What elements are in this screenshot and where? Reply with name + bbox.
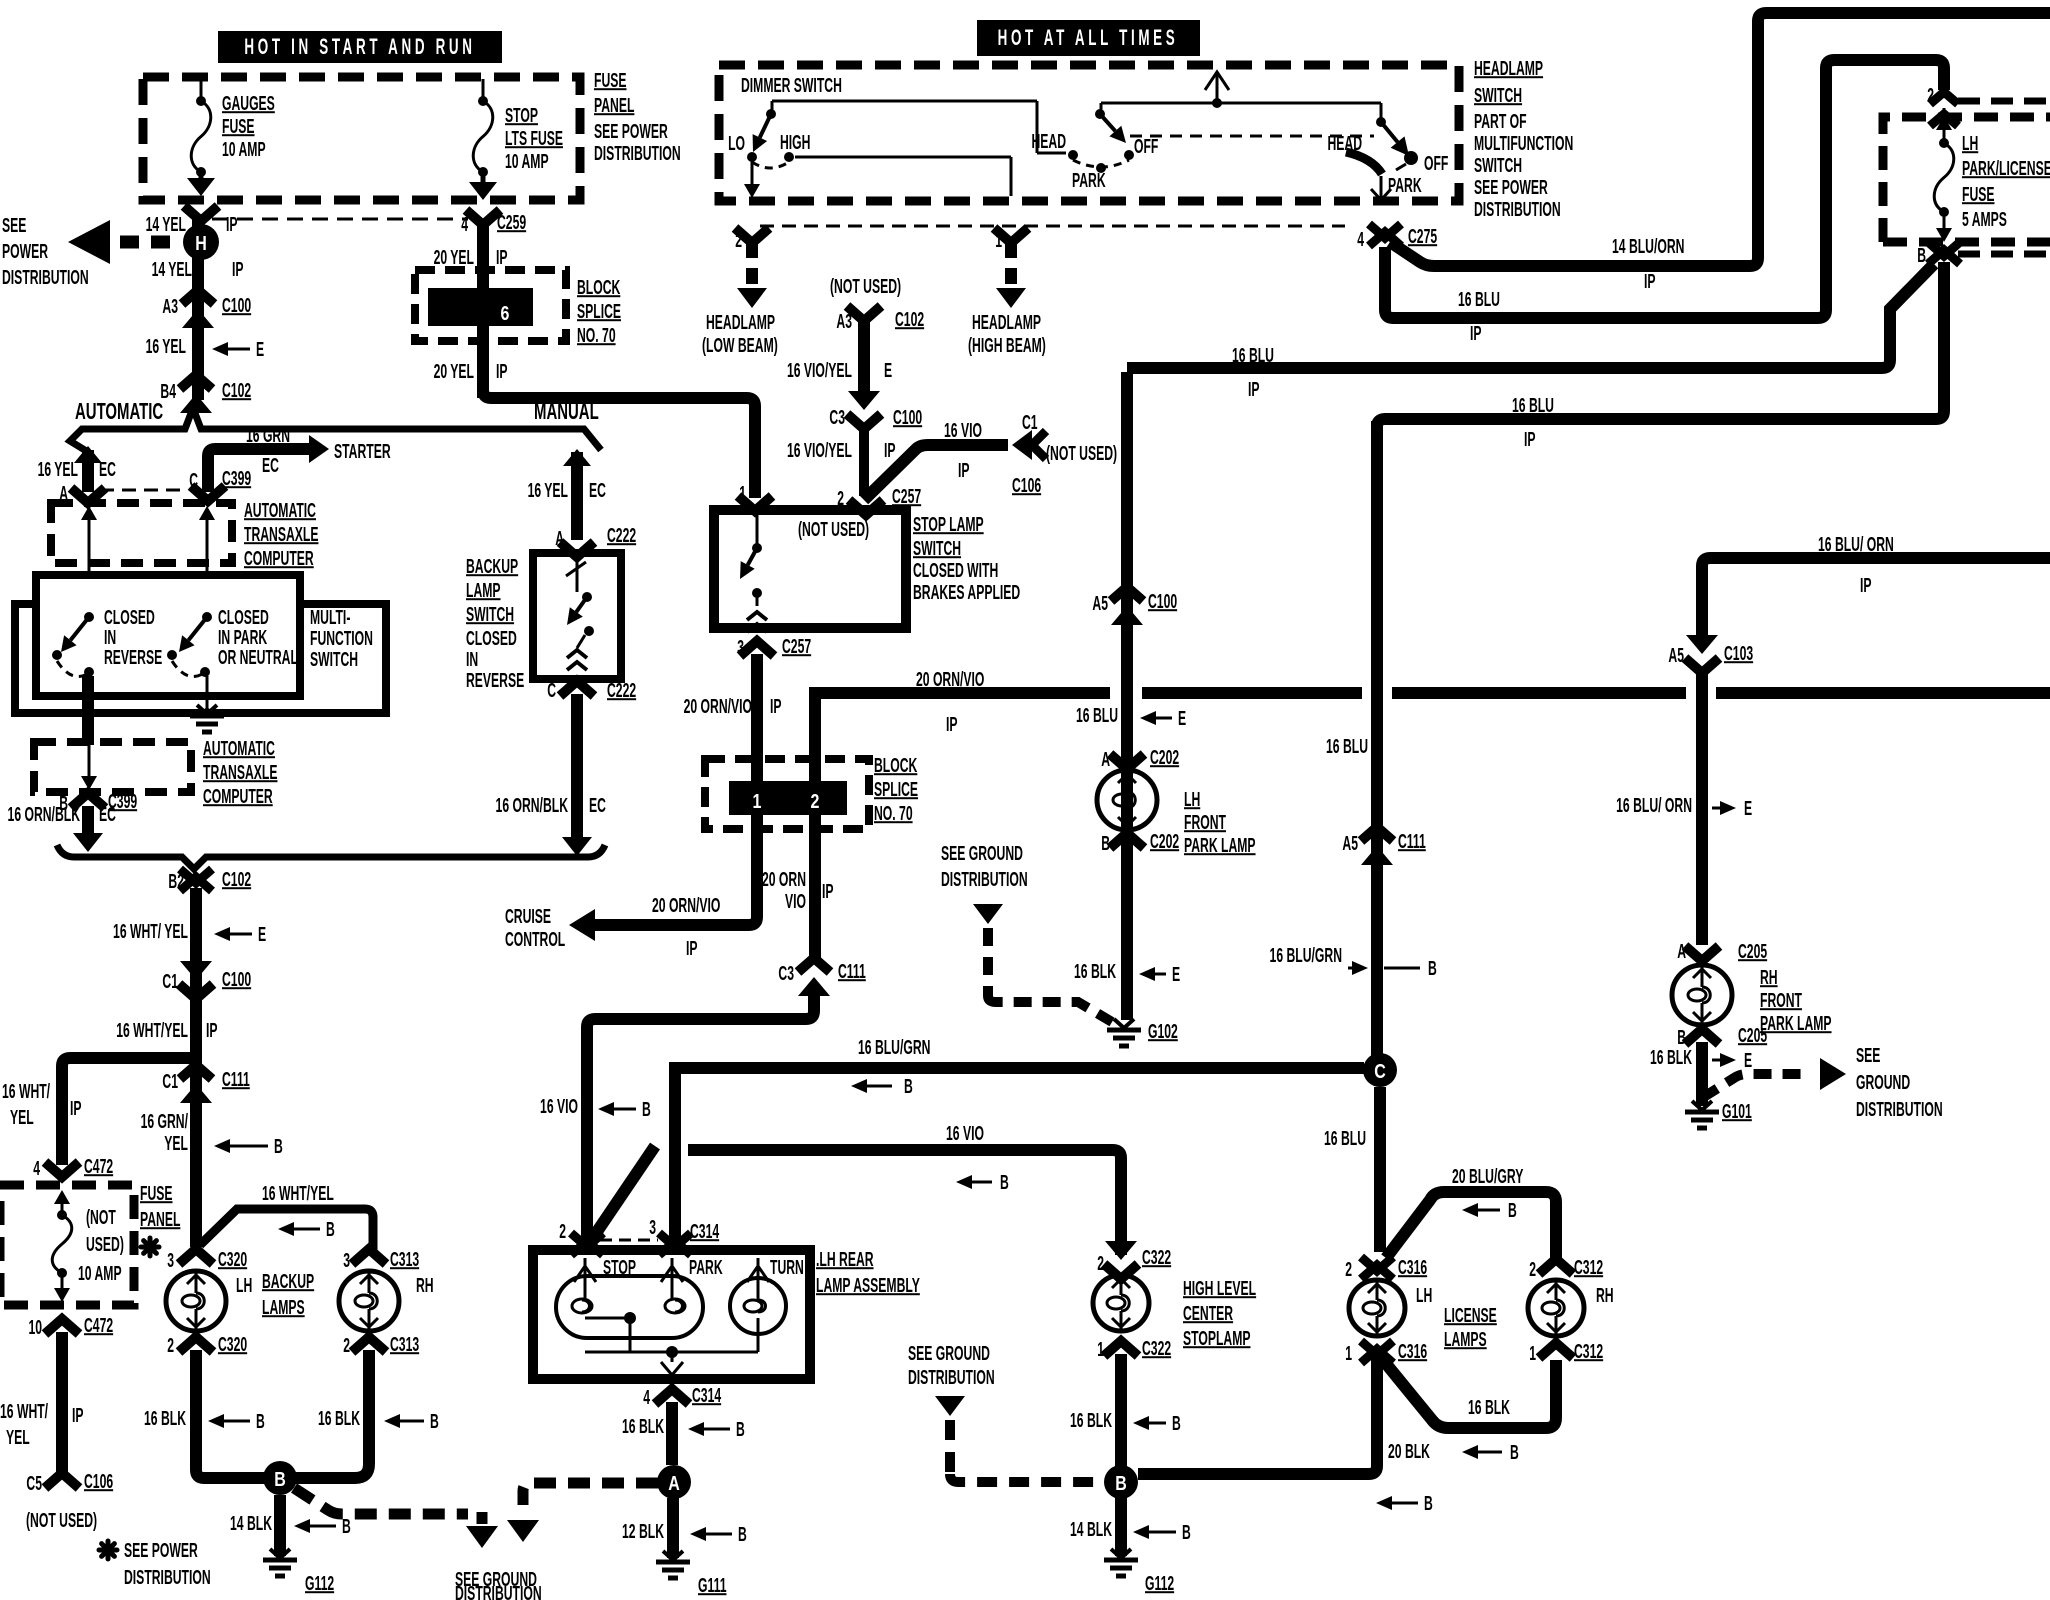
svg-text:C3: C3 bbox=[829, 406, 845, 429]
svg-text:B: B bbox=[904, 1075, 913, 1098]
svg-text:OFF: OFF bbox=[1424, 152, 1448, 175]
svg-text:E: E bbox=[884, 359, 892, 382]
svg-text:C205: C205 bbox=[1738, 940, 1767, 963]
svg-text:C106: C106 bbox=[84, 1470, 113, 1493]
svg-text:EC: EC bbox=[262, 454, 279, 477]
svg-text:20 BLK: 20 BLK bbox=[1388, 1440, 1430, 1463]
svg-text:EC: EC bbox=[99, 458, 116, 481]
svg-text:LICENSE: LICENSE bbox=[1444, 1304, 1497, 1327]
svg-text:C472: C472 bbox=[84, 1155, 113, 1178]
svg-text:B: B bbox=[1172, 1412, 1181, 1435]
svg-text:16 ORN/BLK: 16 ORN/BLK bbox=[496, 794, 568, 817]
svg-text:16 BLK: 16 BLK bbox=[622, 1415, 664, 1438]
svg-text:C320: C320 bbox=[218, 1248, 247, 1271]
svg-text:PANEL: PANEL bbox=[594, 94, 634, 117]
svg-text:C1: C1 bbox=[1022, 411, 1038, 434]
svg-text:C313: C313 bbox=[390, 1248, 419, 1271]
svg-text:2: 2 bbox=[1529, 1258, 1536, 1281]
svg-text:C259: C259 bbox=[497, 211, 526, 234]
svg-text:CLOSED: CLOSED bbox=[466, 627, 517, 650]
svg-text:PARK: PARK bbox=[1072, 169, 1106, 192]
svg-text:16 YEL: 16 YEL bbox=[528, 479, 568, 502]
svg-text:SWITCH: SWITCH bbox=[466, 603, 514, 626]
svg-text:C257: C257 bbox=[892, 485, 921, 508]
svg-text:EC: EC bbox=[99, 803, 116, 826]
svg-text:B: B bbox=[1101, 832, 1110, 855]
svg-text:B2: B2 bbox=[168, 870, 184, 893]
svg-text:IP: IP bbox=[1860, 574, 1872, 597]
svg-text:C222: C222 bbox=[607, 679, 636, 702]
svg-text:DISTRIBUTION: DISTRIBUTION bbox=[455, 1582, 542, 1600]
svg-text:B: B bbox=[1508, 1199, 1517, 1222]
svg-text:IP: IP bbox=[1644, 270, 1656, 293]
svg-text:CLOSED WITH: CLOSED WITH bbox=[913, 559, 998, 582]
svg-text:A: A bbox=[1101, 748, 1110, 771]
svg-text:DISTRIBUTION: DISTRIBUTION bbox=[1474, 198, 1561, 221]
svg-text:IP: IP bbox=[946, 713, 958, 736]
svg-text:B: B bbox=[1424, 1492, 1433, 1515]
svg-text:IP: IP bbox=[884, 439, 896, 462]
svg-text:RH: RH bbox=[1760, 966, 1778, 989]
svg-text:HIGH: HIGH bbox=[780, 131, 810, 154]
svg-text:C100: C100 bbox=[893, 406, 922, 429]
svg-text:B: B bbox=[1182, 1521, 1191, 1544]
svg-text:4: 4 bbox=[33, 1157, 40, 1180]
svg-text:LH: LH bbox=[236, 1274, 252, 1297]
svg-text:A: A bbox=[668, 1472, 680, 1494]
svg-text:1: 1 bbox=[995, 229, 1002, 252]
svg-text:3: 3 bbox=[649, 1216, 656, 1239]
svg-text:C202: C202 bbox=[1150, 830, 1179, 853]
svg-text:B: B bbox=[274, 1135, 283, 1158]
svg-text:16 BLU/ ORN: 16 BLU/ ORN bbox=[1616, 794, 1692, 817]
svg-text:IP: IP bbox=[1248, 378, 1260, 401]
svg-text:C: C bbox=[547, 679, 556, 702]
svg-text:16 BLU: 16 BLU bbox=[1458, 288, 1500, 311]
svg-text:FRONT: FRONT bbox=[1760, 989, 1802, 1012]
svg-text:16 BLK: 16 BLK bbox=[144, 1407, 186, 1430]
svg-text:16 BLU/GRN: 16 BLU/GRN bbox=[1270, 944, 1342, 967]
svg-text:IP: IP bbox=[770, 695, 782, 718]
svg-text:TRANSAXLE: TRANSAXLE bbox=[203, 761, 277, 784]
svg-text:16 YEL: 16 YEL bbox=[146, 335, 186, 358]
svg-text:5 AMPS: 5 AMPS bbox=[1962, 208, 2007, 231]
svg-text:16 VIO/YEL: 16 VIO/YEL bbox=[787, 359, 852, 382]
svg-text:C100: C100 bbox=[222, 294, 251, 317]
svg-text:YEL: YEL bbox=[6, 1426, 30, 1449]
svg-text:IP: IP bbox=[232, 258, 244, 281]
svg-text:TRANSAXLE: TRANSAXLE bbox=[244, 523, 318, 546]
svg-text:STARTER: STARTER bbox=[334, 440, 391, 463]
svg-text:C106: C106 bbox=[1012, 474, 1041, 497]
svg-text:IP: IP bbox=[206, 1019, 218, 1042]
svg-text:LH: LH bbox=[1962, 132, 1978, 155]
svg-text:1: 1 bbox=[1345, 1342, 1352, 1365]
svg-text:B: B bbox=[256, 1410, 265, 1433]
svg-text:1: 1 bbox=[739, 482, 746, 505]
svg-text:2: 2 bbox=[735, 229, 742, 252]
svg-text:SEE POWER: SEE POWER bbox=[1474, 176, 1548, 199]
svg-text:USED): USED) bbox=[86, 1233, 124, 1256]
svg-text:PANEL: PANEL bbox=[140, 1208, 180, 1231]
svg-text:IP: IP bbox=[72, 1404, 84, 1427]
svg-text:STOP LAMP: STOP LAMP bbox=[913, 513, 984, 536]
svg-text:16 GRN: 16 GRN bbox=[246, 424, 290, 447]
svg-text:A: A bbox=[555, 527, 564, 550]
svg-text:B: B bbox=[342, 1515, 351, 1538]
svg-text:BLOCK: BLOCK bbox=[577, 276, 620, 299]
svg-text:HOT IN START AND RUN: HOT IN START AND RUN bbox=[244, 35, 475, 59]
svg-text:C100: C100 bbox=[222, 968, 251, 991]
svg-text:A3: A3 bbox=[162, 295, 178, 318]
svg-text:C102: C102 bbox=[222, 379, 251, 402]
svg-text:C314: C314 bbox=[690, 1220, 720, 1243]
svg-text:3: 3 bbox=[343, 1249, 350, 1272]
svg-text:LAMP: LAMP bbox=[466, 579, 501, 602]
svg-text:A5: A5 bbox=[1092, 592, 1108, 615]
svg-text:2: 2 bbox=[1097, 1252, 1104, 1275]
svg-text:NO. 70: NO. 70 bbox=[874, 802, 913, 825]
svg-text:BACKUP: BACKUP bbox=[262, 1270, 314, 1293]
svg-text:C1: C1 bbox=[162, 970, 178, 993]
svg-text:16 VIO/YEL: 16 VIO/YEL bbox=[787, 439, 852, 462]
svg-text:16 BLU: 16 BLU bbox=[1076, 704, 1118, 727]
svg-text:16 BLK: 16 BLK bbox=[1070, 1409, 1112, 1432]
svg-text:IP: IP bbox=[226, 213, 238, 236]
svg-text:C111: C111 bbox=[1398, 830, 1426, 853]
svg-text:16 BLU/GRN: 16 BLU/GRN bbox=[858, 1036, 930, 1059]
svg-text:GAUGES: GAUGES bbox=[222, 92, 275, 115]
svg-text:G112: G112 bbox=[1145, 1572, 1174, 1595]
svg-text:20 ORN/VIO: 20 ORN/VIO bbox=[684, 695, 752, 718]
svg-text:B: B bbox=[642, 1098, 651, 1121]
svg-text:LTS FUSE: LTS FUSE bbox=[505, 127, 563, 150]
svg-text:1: 1 bbox=[1097, 1338, 1104, 1361]
svg-text:BACKUP: BACKUP bbox=[466, 555, 518, 578]
svg-text:LAMP ASSEMBLY: LAMP ASSEMBLY bbox=[816, 1274, 920, 1297]
svg-text:MANUAL: MANUAL bbox=[534, 399, 599, 425]
svg-text:14 YEL: 14 YEL bbox=[146, 213, 186, 236]
svg-text:SPLICE: SPLICE bbox=[874, 778, 918, 801]
svg-text:SEE POWER: SEE POWER bbox=[594, 120, 668, 143]
svg-text:16 GRN/: 16 GRN/ bbox=[141, 1110, 189, 1133]
svg-text:HEAD: HEAD bbox=[1327, 132, 1362, 155]
svg-text:PARK/LICENSE: PARK/LICENSE bbox=[1962, 157, 2050, 180]
svg-text:A5: A5 bbox=[1668, 644, 1684, 667]
svg-text:(NOT USED): (NOT USED) bbox=[26, 1509, 97, 1532]
svg-text:14 BLK: 14 BLK bbox=[230, 1512, 272, 1535]
svg-text:STOP: STOP bbox=[505, 104, 538, 127]
svg-text:C100: C100 bbox=[1148, 590, 1177, 613]
svg-text:G112: G112 bbox=[305, 1572, 334, 1595]
svg-text:LAMPS: LAMPS bbox=[1444, 1328, 1487, 1351]
svg-text:C5: C5 bbox=[26, 1472, 42, 1495]
svg-text:20 ORN: 20 ORN bbox=[762, 868, 806, 891]
svg-text:HEADLAMP: HEADLAMP bbox=[706, 311, 775, 334]
svg-text:LAMPS: LAMPS bbox=[262, 1296, 305, 1319]
svg-text:2: 2 bbox=[167, 1334, 174, 1357]
svg-text:3: 3 bbox=[167, 1249, 174, 1272]
svg-text:POWER: POWER bbox=[2, 240, 48, 263]
svg-text:B: B bbox=[738, 1523, 747, 1546]
svg-text:C312: C312 bbox=[1574, 1256, 1603, 1279]
svg-text:SEE: SEE bbox=[2, 214, 26, 237]
svg-text:E: E bbox=[1178, 707, 1186, 730]
svg-text:1: 1 bbox=[753, 790, 762, 812]
svg-text:HEADLAMP: HEADLAMP bbox=[1474, 57, 1543, 80]
svg-text:.LH REAR: .LH REAR bbox=[816, 1248, 874, 1271]
svg-text:PARK: PARK bbox=[1388, 174, 1422, 197]
svg-text:(NOT USED): (NOT USED) bbox=[1046, 442, 1117, 465]
svg-text:SWITCH: SWITCH bbox=[1474, 84, 1522, 107]
svg-text:16 VIO: 16 VIO bbox=[944, 419, 982, 442]
svg-text:16 YEL: 16 YEL bbox=[38, 458, 78, 481]
svg-text:16 BLU: 16 BLU bbox=[1326, 735, 1368, 758]
svg-text:C320: C320 bbox=[218, 1333, 247, 1356]
svg-text:16 BLU/ ORN: 16 BLU/ ORN bbox=[1818, 533, 1894, 556]
svg-text:FRONT: FRONT bbox=[1184, 811, 1226, 834]
svg-text:C275: C275 bbox=[1408, 225, 1437, 248]
svg-text:3: 3 bbox=[737, 636, 744, 659]
svg-text:C322: C322 bbox=[1142, 1246, 1171, 1269]
svg-text:NO. 70: NO. 70 bbox=[577, 324, 616, 347]
svg-text:16 WHT/ YEL: 16 WHT/ YEL bbox=[113, 920, 188, 943]
svg-text:PART OF: PART OF bbox=[1474, 110, 1527, 133]
svg-text:CONTROL: CONTROL bbox=[505, 928, 565, 951]
svg-text:CRUISE: CRUISE bbox=[505, 905, 551, 928]
svg-text:G102: G102 bbox=[1148, 1020, 1178, 1043]
svg-text:COMPUTER: COMPUTER bbox=[244, 547, 314, 570]
svg-text:SEE POWER: SEE POWER bbox=[124, 1539, 198, 1562]
svg-text:(HIGH BEAM): (HIGH BEAM) bbox=[968, 334, 1046, 357]
svg-text:A: A bbox=[1677, 940, 1686, 963]
svg-text:C111: C111 bbox=[838, 960, 866, 983]
svg-text:12 BLK: 12 BLK bbox=[622, 1520, 664, 1543]
svg-text:16 WHT/YEL: 16 WHT/YEL bbox=[116, 1019, 188, 1042]
svg-text:16 VIO: 16 VIO bbox=[540, 1095, 578, 1118]
svg-text:16 WHT/: 16 WHT/ bbox=[0, 1400, 48, 1423]
svg-text:16 BLK: 16 BLK bbox=[1468, 1396, 1510, 1419]
svg-text:MULTI-: MULTI- bbox=[310, 606, 350, 629]
svg-text:FUSE: FUSE bbox=[1962, 183, 1995, 206]
svg-text:DIMMER SWITCH: DIMMER SWITCH bbox=[741, 74, 842, 97]
svg-text:DISTRIBUTION: DISTRIBUTION bbox=[908, 1366, 995, 1389]
svg-text:SEE: SEE bbox=[1856, 1044, 1880, 1067]
svg-text:16 BLU: 16 BLU bbox=[1232, 344, 1274, 367]
svg-text:20 BLU/GRY: 20 BLU/GRY bbox=[1452, 1165, 1523, 1188]
svg-text:AUTOMATIC: AUTOMATIC bbox=[203, 737, 275, 760]
svg-text:COMPUTER: COMPUTER bbox=[203, 785, 273, 808]
svg-text:IP: IP bbox=[70, 1097, 82, 1120]
svg-text:10: 10 bbox=[28, 1316, 42, 1339]
svg-text:STOPLAMP: STOPLAMP bbox=[1183, 1327, 1250, 1350]
svg-text:B: B bbox=[1000, 1171, 1009, 1194]
svg-text:C472: C472 bbox=[84, 1314, 113, 1337]
svg-text:E: E bbox=[1172, 963, 1180, 986]
svg-text:4: 4 bbox=[461, 213, 468, 236]
svg-text:2: 2 bbox=[811, 790, 820, 812]
svg-text:DISTRIBUTION: DISTRIBUTION bbox=[594, 142, 681, 165]
svg-text:LO: LO bbox=[728, 132, 745, 155]
svg-text:E: E bbox=[1744, 1049, 1752, 1072]
svg-text:16 WHT/YEL: 16 WHT/YEL bbox=[262, 1182, 334, 1205]
svg-text:SEE GROUND: SEE GROUND bbox=[908, 1342, 990, 1365]
svg-text:2: 2 bbox=[1345, 1258, 1352, 1281]
svg-text:C: C bbox=[1374, 1060, 1386, 1082]
svg-text:EC: EC bbox=[589, 794, 606, 817]
svg-text:16 BLK: 16 BLK bbox=[318, 1407, 360, 1430]
svg-text:14 YEL: 14 YEL bbox=[152, 258, 192, 281]
svg-text:E: E bbox=[256, 338, 264, 361]
svg-text:REVERSE: REVERSE bbox=[466, 669, 524, 692]
svg-text:16 BLK: 16 BLK bbox=[1650, 1046, 1692, 1069]
svg-text:B: B bbox=[1510, 1441, 1519, 1464]
svg-text:SPLICE: SPLICE bbox=[577, 300, 621, 323]
svg-text:OR NEUTRAL: OR NEUTRAL bbox=[218, 646, 298, 669]
svg-text:BRAKES APPLIED: BRAKES APPLIED bbox=[913, 581, 1020, 604]
svg-text:B: B bbox=[1917, 244, 1926, 267]
svg-text:IP: IP bbox=[1524, 428, 1536, 451]
svg-text:TURN: TURN bbox=[770, 1256, 804, 1279]
svg-text:C222: C222 bbox=[607, 524, 636, 547]
svg-text:SWITCH: SWITCH bbox=[913, 537, 961, 560]
svg-text:C399: C399 bbox=[222, 467, 251, 490]
svg-text:DISTRIBUTION: DISTRIBUTION bbox=[124, 1566, 211, 1589]
svg-text:E: E bbox=[1744, 797, 1752, 820]
svg-text:A5: A5 bbox=[1342, 832, 1358, 855]
svg-text:C314: C314 bbox=[692, 1384, 722, 1407]
svg-text:EC: EC bbox=[589, 479, 606, 502]
svg-text:PARK LAMP: PARK LAMP bbox=[1184, 834, 1256, 857]
svg-text:C313: C313 bbox=[390, 1333, 419, 1356]
svg-text:2: 2 bbox=[1927, 84, 1934, 107]
svg-text:20 YEL: 20 YEL bbox=[434, 360, 474, 383]
svg-text:E: E bbox=[258, 923, 266, 946]
svg-text:SWITCH: SWITCH bbox=[310, 648, 358, 671]
svg-text:16 BLU: 16 BLU bbox=[1512, 394, 1554, 417]
svg-text:CENTER: CENTER bbox=[1183, 1302, 1233, 1325]
svg-text:HIGH LEVEL: HIGH LEVEL bbox=[1183, 1277, 1256, 1300]
svg-text:HEADLAMP: HEADLAMP bbox=[972, 311, 1041, 334]
svg-text:YEL: YEL bbox=[10, 1106, 34, 1129]
svg-text:IP: IP bbox=[686, 937, 698, 960]
svg-text:C102: C102 bbox=[222, 868, 251, 891]
svg-text:FUSE: FUSE bbox=[140, 1182, 173, 1205]
svg-text:(NOT: (NOT bbox=[86, 1206, 116, 1229]
svg-text:SEE GROUND: SEE GROUND bbox=[941, 842, 1023, 865]
svg-text:10 AMP: 10 AMP bbox=[222, 138, 266, 161]
svg-text:FUNCTION: FUNCTION bbox=[310, 627, 373, 650]
svg-text:AUTOMATIC: AUTOMATIC bbox=[75, 399, 163, 425]
svg-text:4: 4 bbox=[1357, 228, 1364, 251]
svg-text:C322: C322 bbox=[1142, 1337, 1171, 1360]
svg-text:20 YEL: 20 YEL bbox=[434, 246, 474, 269]
svg-text:B: B bbox=[1115, 1472, 1127, 1494]
svg-text:(NOT USED): (NOT USED) bbox=[830, 275, 901, 298]
svg-text:DISTRIBUTION: DISTRIBUTION bbox=[2, 266, 89, 289]
svg-text:DISTRIBUTION: DISTRIBUTION bbox=[941, 868, 1028, 891]
svg-text:RH: RH bbox=[416, 1274, 434, 1297]
svg-text:16 ORN/BLK: 16 ORN/BLK bbox=[8, 803, 80, 826]
svg-text:2: 2 bbox=[559, 1220, 566, 1243]
svg-text:IP: IP bbox=[496, 246, 508, 269]
svg-text:C111: C111 bbox=[222, 1068, 250, 1091]
svg-text:DISTRIBUTION: DISTRIBUTION bbox=[1856, 1098, 1943, 1121]
svg-text:14 BLU/ORN: 14 BLU/ORN bbox=[1612, 235, 1684, 258]
svg-text:B: B bbox=[430, 1410, 439, 1433]
svg-text:C1: C1 bbox=[162, 1070, 178, 1093]
svg-text:G111: G111 bbox=[698, 1574, 726, 1597]
svg-text:(NOT USED): (NOT USED) bbox=[798, 518, 869, 541]
svg-text:C202: C202 bbox=[1150, 746, 1179, 769]
svg-text:VIO: VIO bbox=[785, 890, 806, 913]
svg-text:10 AMP: 10 AMP bbox=[505, 150, 549, 173]
svg-text:GROUND: GROUND bbox=[1856, 1071, 1910, 1094]
svg-text:BLOCK: BLOCK bbox=[874, 754, 917, 777]
svg-text:C312: C312 bbox=[1574, 1340, 1603, 1363]
svg-text:SWITCH: SWITCH bbox=[1474, 154, 1522, 177]
svg-text:2: 2 bbox=[343, 1334, 350, 1357]
svg-text:B: B bbox=[736, 1418, 745, 1441]
svg-text:G101: G101 bbox=[1722, 1100, 1752, 1123]
svg-text:C257: C257 bbox=[782, 635, 811, 658]
svg-text:REVERSE: REVERSE bbox=[104, 646, 162, 669]
svg-text:16 WHT/: 16 WHT/ bbox=[2, 1080, 50, 1103]
svg-text:A3: A3 bbox=[836, 310, 852, 333]
svg-text:AUTOMATIC: AUTOMATIC bbox=[244, 499, 316, 522]
svg-text:H: H bbox=[195, 232, 207, 254]
svg-text:(LOW BEAM): (LOW BEAM) bbox=[702, 334, 778, 357]
svg-text:FUSE: FUSE bbox=[222, 115, 255, 138]
svg-text:16 BLU: 16 BLU bbox=[1324, 1127, 1366, 1150]
svg-text:IP: IP bbox=[496, 360, 508, 383]
svg-text:HOT AT ALL TIMES: HOT AT ALL TIMES bbox=[998, 26, 1179, 50]
svg-text:RH: RH bbox=[1596, 1284, 1614, 1307]
svg-text:PARK LAMP: PARK LAMP bbox=[1760, 1012, 1832, 1035]
svg-text:IP: IP bbox=[822, 880, 834, 903]
svg-text:14 BLK: 14 BLK bbox=[1070, 1518, 1112, 1541]
svg-text:C316: C316 bbox=[1398, 1256, 1427, 1279]
svg-text:IP: IP bbox=[1470, 322, 1482, 345]
svg-text:C3: C3 bbox=[778, 962, 794, 985]
svg-text:YEL: YEL bbox=[164, 1132, 188, 1155]
svg-text:FUSE: FUSE bbox=[594, 69, 627, 92]
svg-text:B: B bbox=[326, 1218, 335, 1241]
svg-text:LH: LH bbox=[1184, 788, 1200, 811]
svg-text:20 ORN/VIO: 20 ORN/VIO bbox=[652, 894, 720, 917]
svg-text:C102: C102 bbox=[895, 308, 924, 331]
svg-text:IP: IP bbox=[958, 459, 970, 482]
svg-text:IN: IN bbox=[466, 648, 478, 671]
svg-text:OFF: OFF bbox=[1134, 135, 1158, 158]
svg-text:B: B bbox=[1428, 957, 1437, 980]
svg-text:6: 6 bbox=[501, 302, 510, 324]
svg-text:16 BLK: 16 BLK bbox=[1074, 960, 1116, 983]
svg-text:10 AMP: 10 AMP bbox=[78, 1262, 122, 1285]
svg-text:B: B bbox=[274, 1468, 286, 1490]
svg-text:C316: C316 bbox=[1398, 1340, 1427, 1363]
svg-text:LH: LH bbox=[1416, 1284, 1432, 1307]
svg-text:PARK: PARK bbox=[689, 1256, 723, 1279]
svg-text:1: 1 bbox=[1529, 1342, 1536, 1365]
svg-text:C103: C103 bbox=[1724, 642, 1753, 665]
svg-text:MULTIFUNCTION: MULTIFUNCTION bbox=[1474, 132, 1573, 155]
svg-text:4: 4 bbox=[643, 1386, 650, 1409]
svg-text:16 VIO: 16 VIO bbox=[946, 1122, 984, 1145]
svg-text:HEAD: HEAD bbox=[1031, 130, 1066, 153]
